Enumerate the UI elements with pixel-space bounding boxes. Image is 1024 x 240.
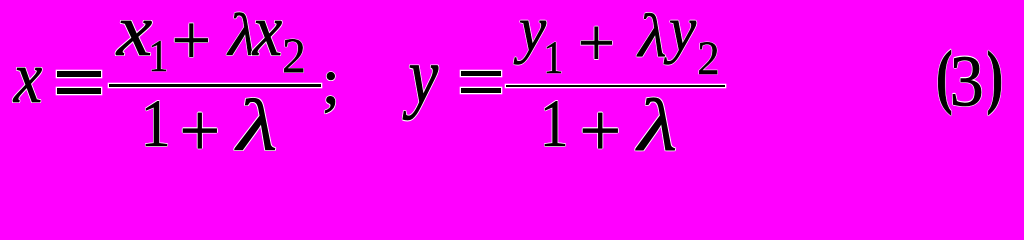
numerator2 plus — [578, 8, 615, 77]
numerator2 y — [519, 0, 546, 61]
equals sign eq2 top bar — [461, 71, 501, 77]
numerator1 second x — [253, 0, 283, 68]
denominator1 digit 1 — [141, 89, 171, 157]
numerator2 subscript 2 — [697, 34, 720, 82]
equals sign eq1 top bar — [57, 71, 101, 77]
denominator1 lambda — [237, 90, 277, 163]
numerator1 subscript 2 — [282, 31, 306, 80]
numerator1 plus — [171, 5, 211, 76]
denominator2 lambda — [638, 88, 677, 162]
denominator2 plus — [579, 93, 621, 169]
denominator2 digit 1 — [540, 89, 569, 157]
numerator2 subscript 1 — [543, 34, 563, 81]
variable x (left side eq1) — [14, 41, 43, 115]
equation number close paren — [987, 41, 1004, 112]
equation number digit 3 — [950, 45, 984, 118]
fraction bar 2 — [506, 85, 725, 88]
variable y (left side eq2) — [408, 36, 438, 117]
numerator1 lambda — [228, 5, 256, 65]
numerator2 lambda — [638, 5, 666, 66]
numerator1 subscript 1 — [148, 33, 168, 78]
fraction bar 1 — [109, 84, 321, 87]
semicolon separator — [322, 48, 341, 114]
numerator2 second y — [669, 0, 696, 61]
equals sign eq1 bottom bar — [57, 88, 101, 94]
equals sign eq2 bottom bar — [461, 88, 501, 94]
denominator1 plus — [179, 93, 220, 169]
equation number open paren — [936, 40, 953, 112]
numerator1 x — [117, 0, 153, 68]
